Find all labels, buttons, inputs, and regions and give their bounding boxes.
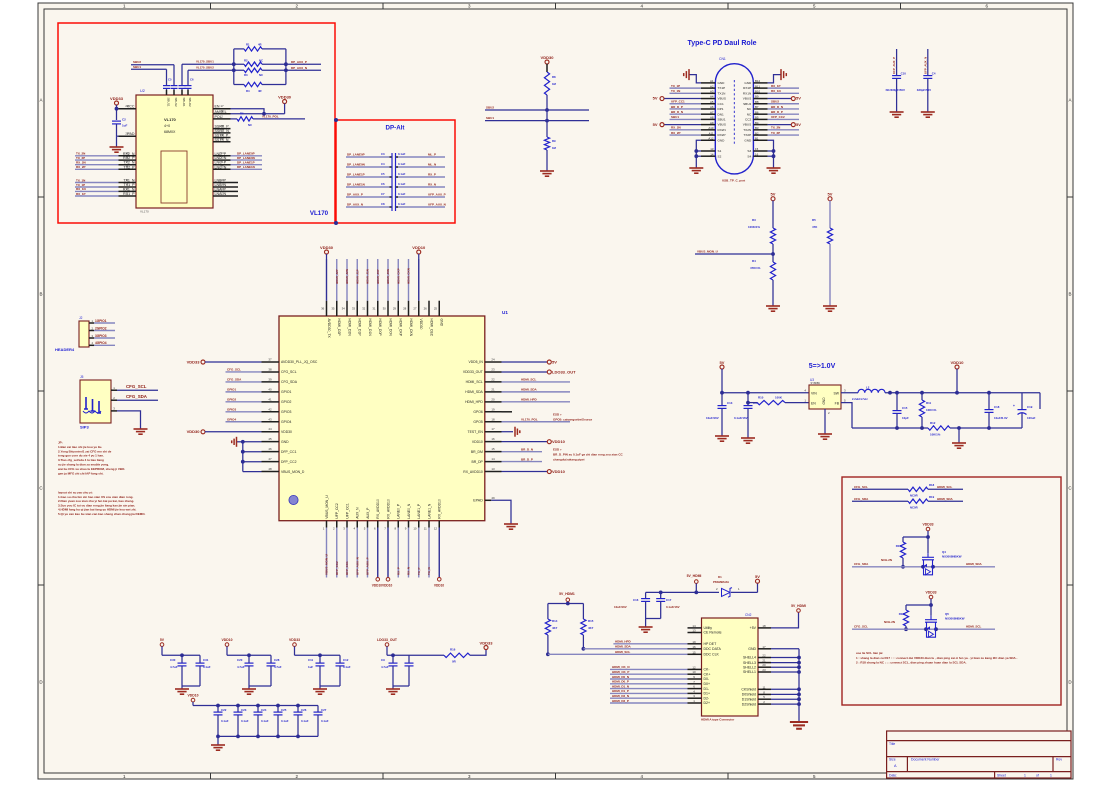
svg-text:SBU1: SBU1 bbox=[718, 118, 726, 122]
svg-text:HDMI_HPD: HDMI_HPD bbox=[465, 400, 483, 404]
svg-text:22: 22 bbox=[491, 377, 495, 381]
svg-text:C26: C26 bbox=[301, 708, 307, 712]
svg-text:RX_P: RX_P bbox=[396, 567, 400, 575]
svg-text:VDD30: VDD30 bbox=[187, 429, 201, 434]
svg-text:28: 28 bbox=[403, 307, 407, 311]
svg-text:R2: R2 bbox=[244, 58, 248, 62]
svg-text:VBUS_MON_D: VBUS_MON_D bbox=[281, 470, 305, 474]
svg-text:VBUS_MON_U: VBUS_MON_U bbox=[697, 249, 718, 253]
svg-text:100K: 100K bbox=[775, 396, 783, 400]
svg-text:TX_2P: TX_2P bbox=[76, 156, 85, 160]
svg-text:NCH-2N: NCH-2N bbox=[884, 620, 895, 624]
svg-text:SBU21: SBU21 bbox=[182, 98, 186, 108]
svg-text:R5: R5 bbox=[812, 218, 816, 222]
svg-text:VDD10: VDD10 bbox=[552, 439, 566, 444]
svg-text:B8: B8 bbox=[755, 100, 759, 104]
svg-text:BR_D_P: BR_D_P bbox=[521, 457, 533, 461]
svg-text:4K7: 4K7 bbox=[588, 626, 594, 630]
svg-text:29: 29 bbox=[125, 132, 129, 136]
svg-text:2 : R18 shang la NC : : : con: 2 : R18 shang la NC : : : connect SCL, d… bbox=[856, 661, 967, 665]
svg-text:DP1: DP1 bbox=[718, 107, 724, 111]
svg-text:5=>1.0V: 5=>1.0V bbox=[809, 363, 836, 370]
svg-text:14: 14 bbox=[692, 624, 696, 628]
svg-text:RX_2P: RX_2P bbox=[76, 165, 86, 169]
svg-text:2.Yong Bitcontrol1 zai CFG mo: 2.Yong Bitcontrol1 zai CFG mo shi de bbox=[58, 449, 112, 453]
svg-text:VBUS_MON_U: VBUS_MON_U bbox=[325, 495, 329, 519]
svg-text:R18: R18 bbox=[899, 612, 905, 616]
svg-text:RX1N: RX1N bbox=[743, 91, 751, 95]
svg-text:use lie SCL lian jie:: use lie SCL lian jie: bbox=[856, 651, 883, 655]
svg-text:4R: 4R bbox=[258, 89, 262, 93]
svg-text:16: 16 bbox=[755, 152, 759, 156]
svg-text:DP_AUX_P: DP_AUX_P bbox=[347, 193, 363, 197]
svg-text:of: of bbox=[1036, 773, 1039, 777]
svg-text:VDD30: VDD30 bbox=[419, 319, 423, 330]
svg-text:RX1_P: RX1_P bbox=[123, 192, 135, 196]
svg-text:10: 10 bbox=[413, 527, 417, 531]
svg-text:HDMI_J0P: HDMI_J0P bbox=[376, 269, 380, 284]
svg-text:R11: R11 bbox=[926, 401, 932, 405]
svg-text:4.7uF: 4.7uF bbox=[237, 665, 245, 669]
svg-text:10: 10 bbox=[692, 670, 696, 674]
svg-text:DP_LANE1P: DP_LANE1P bbox=[347, 173, 365, 177]
svg-text:TX2_N: TX2_N bbox=[123, 161, 135, 165]
svg-text:5V: 5V bbox=[653, 96, 658, 101]
svg-text:29: 29 bbox=[393, 307, 397, 311]
svg-text:5V: 5V bbox=[552, 359, 557, 364]
svg-text:C24: C24 bbox=[261, 708, 267, 712]
svg-text:25: 25 bbox=[434, 307, 438, 311]
svg-text:DDC DATA: DDC DATA bbox=[704, 647, 722, 651]
svg-text:12: 12 bbox=[692, 665, 696, 669]
svg-text:R1: R1 bbox=[246, 42, 250, 46]
svg-text:SBU2: SBU2 bbox=[743, 102, 751, 106]
svg-text:GPIO4: GPIO4 bbox=[281, 420, 291, 424]
svg-text:21: 21 bbox=[220, 160, 224, 164]
svg-text:C18: C18 bbox=[994, 405, 1000, 409]
svg-text:10K/1%: 10K/1% bbox=[930, 433, 941, 437]
svg-text:GPIO3: GPIO3 bbox=[227, 408, 237, 412]
svg-text:wai bu CFG xu shao lu EEPROM,: wai bu CFG xu shao lu EEPROM, sheng ji V… bbox=[57, 467, 125, 471]
svg-text:J5: J5 bbox=[80, 375, 84, 379]
svg-text:+: + bbox=[1013, 404, 1015, 408]
svg-text:4R: 4R bbox=[258, 42, 262, 46]
svg-text:D0+: D0+ bbox=[704, 682, 711, 686]
svg-text:5V: 5V bbox=[796, 96, 801, 101]
svg-text:C4: C4 bbox=[381, 162, 385, 166]
svg-text:20: 20 bbox=[220, 165, 224, 169]
svg-text:VBUS: VBUS bbox=[743, 123, 751, 127]
svg-text:22: 22 bbox=[125, 104, 129, 108]
svg-text:35: 35 bbox=[331, 307, 335, 311]
svg-text:DP_AUX_P: DP_AUX_P bbox=[291, 60, 307, 64]
svg-text:HDMI_CKP: HDMI_CKP bbox=[396, 268, 400, 284]
svg-text:VDD10: VDD10 bbox=[951, 360, 965, 365]
svg-text:49: 49 bbox=[491, 496, 495, 500]
svg-text:C9: C9 bbox=[381, 658, 385, 662]
svg-text:1GPIO1: 1GPIO1 bbox=[95, 319, 107, 323]
svg-text:4+0: 4+0 bbox=[164, 124, 170, 128]
svg-text:VL170_SBU1: VL170_SBU1 bbox=[196, 60, 214, 64]
svg-text:21: 21 bbox=[762, 659, 766, 663]
svg-text:10uF/16V: 10uF/16V bbox=[614, 605, 627, 609]
svg-text:VL170: VL170 bbox=[140, 210, 149, 214]
svg-text:B6: B6 bbox=[755, 110, 759, 114]
svg-text:TX_1P: TX_1P bbox=[671, 84, 680, 88]
svg-text:VDD10: VDD10 bbox=[412, 245, 426, 250]
svg-text:R14: R14 bbox=[552, 619, 558, 623]
svg-text:RX2N: RX2N bbox=[718, 128, 726, 132]
svg-text:S3: S3 bbox=[747, 149, 751, 153]
svg-text:41: 41 bbox=[268, 397, 272, 401]
svg-text:GND: GND bbox=[744, 81, 752, 85]
svg-text:DFP_CC2: DFP_CC2 bbox=[281, 460, 297, 464]
svg-text:0.1uF: 0.1uF bbox=[203, 665, 211, 669]
svg-text:NC: NC bbox=[259, 73, 263, 77]
svg-text:SY8089: SY8089 bbox=[811, 381, 821, 385]
svg-text:A3: A3 bbox=[710, 90, 714, 94]
svg-text:23: 23 bbox=[220, 156, 224, 160]
svg-text:AVDD30_PLL_JQ_OSC: AVDD30_PLL_JQ_OSC bbox=[281, 360, 318, 364]
svg-text:CFG_SDA: CFG_SDA bbox=[854, 562, 869, 566]
svg-text:BR_D_P: BR_D_P bbox=[771, 110, 783, 114]
svg-text:5V: 5V bbox=[755, 574, 760, 579]
svg-text:13: 13 bbox=[220, 187, 224, 191]
svg-text:13: 13 bbox=[692, 629, 696, 633]
svg-text:NX3008NBKW: NX3008NBKW bbox=[945, 617, 965, 621]
svg-text:DP-Alt: DP-Alt bbox=[386, 125, 405, 132]
svg-text:JP:: JP: bbox=[58, 441, 63, 445]
svg-text:VDD33: VDD33 bbox=[926, 591, 937, 595]
svg-text:1M: 1M bbox=[552, 82, 557, 86]
svg-text:44: 44 bbox=[268, 427, 272, 431]
svg-text:DP_LANE0N: DP_LANE0N bbox=[237, 156, 255, 160]
svg-text:C11: C11 bbox=[308, 658, 314, 662]
svg-text:NX3008NBKW: NX3008NBKW bbox=[942, 554, 962, 558]
svg-text:0.1uF: 0.1uF bbox=[241, 719, 249, 723]
svg-text:4.7uF: 4.7uF bbox=[381, 665, 389, 669]
svg-text:4.7uF: 4.7uF bbox=[170, 665, 178, 669]
svg-text:TX1_N: TX1_N bbox=[123, 179, 135, 183]
svg-text:48: 48 bbox=[268, 467, 272, 471]
svg-text:UFP_CC1: UFP_CC1 bbox=[345, 561, 349, 575]
svg-text:S4: S4 bbox=[747, 154, 751, 158]
svg-text:D2-: D2- bbox=[704, 696, 710, 700]
svg-text:5V_HDMI: 5V_HDMI bbox=[791, 604, 806, 608]
svg-text:32: 32 bbox=[362, 307, 366, 311]
svg-text:VDD33_OUT: VDD33_OUT bbox=[463, 370, 483, 374]
svg-text:1uF: 1uF bbox=[308, 665, 313, 669]
svg-text:CFG_SCL: CFG_SCL bbox=[126, 384, 147, 389]
svg-text:15: 15 bbox=[692, 650, 696, 654]
svg-text:S2: S2 bbox=[718, 154, 722, 158]
svg-text:BR_DM: BR_DM bbox=[471, 450, 483, 454]
svg-text:VL170: VL170 bbox=[310, 210, 329, 217]
svg-text:GND: GND bbox=[440, 319, 444, 327]
svg-text:CFG_SDA: CFG_SDA bbox=[281, 380, 298, 384]
svg-text:46: 46 bbox=[268, 447, 272, 451]
svg-text:47: 47 bbox=[268, 457, 272, 461]
svg-text:HDMI_SDA: HDMI_SDA bbox=[937, 497, 954, 501]
svg-text:P6SMB6.8A: P6SMB6.8A bbox=[713, 580, 730, 584]
svg-text:VDD10: VDD10 bbox=[188, 694, 199, 698]
svg-text:B5: B5 bbox=[755, 116, 759, 120]
svg-text:C17: C17 bbox=[666, 598, 672, 602]
svg-text:CE Remote: CE Remote bbox=[704, 631, 722, 635]
svg-text:VDD10: VDD10 bbox=[222, 638, 233, 642]
svg-text:R4: R4 bbox=[752, 259, 756, 263]
svg-text:TX1P: TX1P bbox=[718, 86, 726, 90]
svg-text:SHELL2: SHELL2 bbox=[743, 665, 756, 669]
svg-text:A9: A9 bbox=[710, 121, 714, 125]
svg-text:DN1: DN1 bbox=[718, 112, 724, 116]
svg-text:16: 16 bbox=[491, 437, 495, 441]
svg-text:17: 17 bbox=[220, 104, 224, 108]
svg-text:AVDD30_TX: AVDD30_TX bbox=[327, 319, 331, 339]
svg-text:34: 34 bbox=[342, 307, 346, 311]
svg-text:C10: C10 bbox=[901, 72, 907, 76]
svg-text:VDD30: VDD30 bbox=[541, 55, 555, 60]
svg-text:VL170: VL170 bbox=[164, 117, 177, 122]
svg-text:C31: C31 bbox=[203, 658, 209, 662]
svg-text:UFP_CC1: UFP_CC1 bbox=[345, 503, 349, 519]
svg-text:GPIO2: GPIO2 bbox=[227, 398, 237, 402]
svg-text:VIN: VIN bbox=[811, 392, 817, 396]
svg-text:HDMI_J1P: HDMI_J1P bbox=[355, 269, 359, 284]
svg-text:18: 18 bbox=[220, 182, 224, 186]
svg-text:AUX_N: AUX_N bbox=[356, 507, 360, 519]
svg-text:UFP_CC2: UFP_CC2 bbox=[335, 561, 339, 575]
svg-text:gen ju MFG zhi chi IAP fang sh: gen ju MFG zhi chi IAP fang shi. bbox=[58, 471, 104, 475]
svg-text:19: 19 bbox=[692, 640, 696, 644]
svg-text:CC1: CC1 bbox=[718, 102, 724, 106]
svg-text:17: 17 bbox=[762, 645, 766, 649]
svg-text:RX_1P: RX_1P bbox=[771, 84, 781, 88]
svg-text:HDMI_D0_P: HDMI_D0_P bbox=[612, 680, 629, 684]
svg-text:3GPIO3: 3GPIO3 bbox=[95, 334, 107, 338]
svg-text:R16: R16 bbox=[450, 648, 456, 652]
svg-text:17: 17 bbox=[491, 427, 495, 431]
svg-text:47K/1%: 47K/1% bbox=[750, 266, 761, 270]
svg-text:0.1uF: 0.1uF bbox=[398, 152, 406, 156]
svg-text:10pF: 10pF bbox=[902, 416, 909, 420]
svg-text:TX_2N: TX_2N bbox=[771, 126, 780, 130]
svg-text:0.1uF: 0.1uF bbox=[398, 182, 406, 186]
svg-text:RX1P: RX1P bbox=[743, 86, 751, 90]
svg-text:37: 37 bbox=[268, 358, 272, 362]
svg-text:GPIO3: GPIO3 bbox=[281, 410, 291, 414]
svg-text:10K/1%: 10K/1% bbox=[926, 408, 937, 412]
svg-text:B11: B11 bbox=[755, 84, 760, 88]
svg-text:A5: A5 bbox=[710, 100, 714, 104]
svg-text:NC: NC bbox=[747, 112, 752, 116]
svg-text:B3: B3 bbox=[755, 126, 759, 130]
svg-text:HEADER4: HEADER4 bbox=[55, 347, 75, 352]
svg-text:UFP_AUX_P: UFP_AUX_P bbox=[366, 557, 370, 575]
svg-text:RX2P: RX2P bbox=[718, 133, 726, 137]
svg-text:TX_2P: TX_2P bbox=[771, 131, 780, 135]
svg-text:D1Shield: D1Shield bbox=[742, 697, 756, 701]
svg-text:GND: GND bbox=[281, 440, 289, 444]
svg-text:A11: A11 bbox=[709, 131, 714, 135]
svg-text:VDD10: VDD10 bbox=[472, 440, 483, 444]
svg-text:RX2_P: RX2_P bbox=[123, 156, 135, 160]
svg-text:D2+: D2+ bbox=[704, 701, 711, 705]
svg-text:27: 27 bbox=[413, 307, 417, 311]
svg-text:VDD33: VDD33 bbox=[480, 640, 494, 645]
svg-text:UFP_CC2: UFP_CC2 bbox=[771, 115, 785, 119]
svg-text:D2Shield: D2Shield bbox=[742, 702, 756, 706]
svg-text:AUX_P: AUX_P bbox=[366, 507, 370, 519]
svg-text:LANE0_N: LANE0_N bbox=[407, 503, 411, 519]
svg-text:16: 16 bbox=[692, 645, 696, 649]
svg-text:ESD +: ESD + bbox=[553, 413, 562, 417]
svg-text:LANE1_N: LANE1_N bbox=[427, 503, 431, 519]
svg-text:VBUS: VBUS bbox=[718, 123, 726, 127]
svg-text:C5: C5 bbox=[168, 78, 172, 82]
svg-text:10uF/16V: 10uF/16V bbox=[706, 416, 719, 420]
svg-text:TX_1N: TX_1N bbox=[76, 178, 85, 182]
svg-text:GND: GND bbox=[744, 138, 752, 142]
svg-text:RX_AVDD10: RX_AVDD10 bbox=[386, 499, 390, 519]
svg-text:HDMI_D0_N: HDMI_D0_N bbox=[612, 675, 629, 679]
svg-text:HDMI_J1N: HDMI_J1N bbox=[366, 269, 370, 284]
svg-text:38: 38 bbox=[268, 367, 272, 371]
svg-text:4K7: 4K7 bbox=[552, 626, 558, 630]
svg-text:HDMI_D2_N: HDMI_D2_N bbox=[612, 694, 629, 698]
svg-text:CFG_SCL: CFG_SCL bbox=[227, 368, 241, 372]
svg-text:HP DET: HP DET bbox=[704, 642, 718, 646]
svg-text:changdu/zukang pipei: changdu/zukang pipei bbox=[553, 458, 585, 462]
svg-text:TX_P: TX_P bbox=[417, 567, 421, 575]
svg-text:HDMI_HPD: HDMI_HPD bbox=[521, 398, 538, 402]
svg-text:C7: C7 bbox=[381, 192, 385, 196]
svg-text:VBUS_MON_U: VBUS_MON_U bbox=[325, 554, 329, 575]
svg-text:Q4: Q4 bbox=[942, 550, 946, 554]
svg-text:HDMI_SCL: HDMI_SCL bbox=[615, 650, 631, 654]
svg-text:UFP_AUX_N: UFP_AUX_N bbox=[355, 557, 359, 575]
svg-text:Rev: Rev bbox=[1056, 758, 1062, 762]
svg-text:Utility: Utility bbox=[704, 626, 713, 630]
svg-text:19: 19 bbox=[220, 178, 224, 182]
svg-text:TEST_EN: TEST_EN bbox=[468, 430, 484, 434]
svg-text:B: B bbox=[1068, 292, 1071, 297]
svg-text:BR_D_N: BR_D_N bbox=[671, 110, 683, 114]
svg-text:VDD30: VDD30 bbox=[281, 430, 292, 434]
svg-text:HDMI_CK_N: HDMI_CK_N bbox=[612, 665, 630, 669]
svg-text:RX_1N: RX_1N bbox=[76, 187, 86, 191]
svg-text:RX_N: RX_N bbox=[428, 183, 436, 187]
svg-text:NC: NC bbox=[259, 58, 263, 62]
svg-text:5V: 5V bbox=[160, 638, 165, 642]
svg-text:+5V: +5V bbox=[750, 626, 757, 630]
svg-text:UFP_AUX_N: UFP_AUX_N bbox=[428, 203, 446, 207]
svg-text:Type-C PD Daul Role: Type-C PD Daul Role bbox=[687, 40, 756, 47]
svg-text:12: 12 bbox=[220, 191, 224, 195]
svg-text:UFP_CC2: UFP_CC2 bbox=[335, 503, 339, 519]
svg-text:A: A bbox=[39, 98, 42, 103]
svg-text:5V: 5V bbox=[653, 122, 658, 127]
svg-text:R19: R19 bbox=[929, 495, 935, 499]
svg-text:CC2: CC2 bbox=[745, 118, 751, 122]
svg-text:RX_1N: RX_1N bbox=[771, 89, 781, 93]
svg-text:40: 40 bbox=[268, 387, 272, 391]
svg-text:B9: B9 bbox=[755, 95, 759, 99]
svg-text:20: 20 bbox=[762, 663, 766, 667]
svg-text:GPIO2: GPIO2 bbox=[281, 400, 291, 404]
svg-text:R17: R17 bbox=[896, 544, 902, 548]
svg-text:100K/1%: 100K/1% bbox=[748, 225, 760, 229]
svg-text:NCH-2N: NCH-2N bbox=[881, 558, 892, 562]
svg-text:D0Shield: D0Shield bbox=[742, 693, 756, 697]
svg-text:5V: 5V bbox=[796, 122, 801, 127]
svg-text:21: 21 bbox=[491, 387, 495, 391]
svg-text:R4: R4 bbox=[246, 89, 250, 93]
svg-text:VDD33: VDD33 bbox=[110, 96, 124, 101]
svg-text:SBU22: SBU22 bbox=[188, 98, 192, 108]
svg-text:330pF/50V: 330pF/50V bbox=[917, 88, 931, 92]
svg-text:EN: EN bbox=[811, 402, 816, 406]
svg-text:RX_P: RX_P bbox=[428, 173, 436, 177]
svg-text:18: 18 bbox=[762, 624, 766, 628]
svg-text:1: 1 bbox=[1050, 773, 1052, 777]
svg-text:UFP_CC1: UFP_CC1 bbox=[671, 100, 685, 104]
svg-text:GND: GND bbox=[718, 81, 726, 85]
svg-text:D1: D1 bbox=[718, 575, 722, 579]
svg-text:5V_HDMI: 5V_HDMI bbox=[687, 574, 702, 578]
svg-text:R15: R15 bbox=[588, 619, 594, 623]
svg-text:B: B bbox=[39, 292, 42, 297]
svg-text:GND: GND bbox=[822, 397, 826, 405]
svg-text:RX_2P: RX_2P bbox=[671, 131, 681, 135]
svg-text:10uF/6.3V: 10uF/6.3V bbox=[994, 416, 1008, 420]
svg-text:36: 36 bbox=[321, 307, 325, 311]
svg-text:BR_DP: BR_DP bbox=[471, 460, 483, 464]
svg-text:BR_D_P: BR_D_P bbox=[671, 105, 683, 109]
svg-text:UFP_AUX_P: UFP_AUX_P bbox=[892, 57, 896, 74]
svg-text:HDMI_HPD: HDMI_HPD bbox=[615, 639, 632, 643]
svg-text:NC: NC bbox=[248, 123, 252, 127]
svg-text:C28: C28 bbox=[274, 658, 280, 662]
svg-text:22: 22 bbox=[762, 654, 766, 658]
svg-text:D1-: D1- bbox=[704, 687, 710, 691]
svg-text:30: 30 bbox=[383, 307, 387, 311]
svg-text:5V_HDM1: 5V_HDM1 bbox=[559, 592, 575, 596]
svg-text:CFG_SDA: CFG_SDA bbox=[126, 394, 148, 399]
svg-text:HDMI_D1_P: HDMI_D1_P bbox=[612, 689, 629, 693]
svg-text:D0-: D0- bbox=[704, 677, 710, 681]
svg-text:BR_D_P/N xu 0.1uF ge zhi dian: BR_D_P/N xu 0.1uF ge zhi dian rong zou x… bbox=[553, 453, 624, 457]
svg-text:13: 13 bbox=[710, 147, 714, 151]
svg-text:ML_N: ML_N bbox=[428, 163, 436, 167]
svg-text:RX_N: RX_N bbox=[407, 567, 411, 575]
svg-text:A7: A7 bbox=[710, 110, 714, 114]
svg-text:HDMI_CEC: HDMI_CEC bbox=[429, 319, 433, 337]
svg-text:15: 15 bbox=[491, 447, 495, 451]
svg-text:C20: C20 bbox=[237, 658, 243, 662]
svg-text:VBUS: VBUS bbox=[743, 97, 751, 101]
svg-text:C5: C5 bbox=[381, 172, 385, 176]
svg-text:A: A bbox=[1068, 98, 1071, 103]
svg-text:DP_LANE1N: DP_LANE1N bbox=[347, 183, 365, 187]
svg-text:A12: A12 bbox=[708, 136, 714, 140]
svg-text:RX_AVDD10: RX_AVDD10 bbox=[463, 470, 483, 474]
svg-text:RX_2N: RX_2N bbox=[76, 161, 86, 165]
svg-text:C22: C22 bbox=[221, 708, 227, 712]
svg-text:GPO6: GPO6 bbox=[473, 410, 483, 414]
svg-text:FB: FB bbox=[835, 402, 840, 406]
svg-text:Title: Title bbox=[889, 742, 895, 746]
